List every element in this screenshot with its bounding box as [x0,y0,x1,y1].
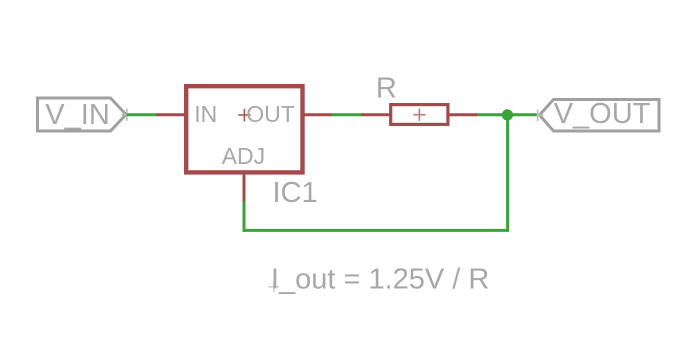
svg-text:IC1: IC1 [273,177,318,209]
svg-text:I_out = 1.25V / R: I_out = 1.25V / R [271,264,489,296]
svg-text:OUT: OUT [246,101,295,127]
svg-text:V_OUT: V_OUT [554,98,651,130]
svg-text:V_IN: V_IN [45,99,109,131]
svg-text:IN: IN [194,101,217,127]
svg-text:ADJ: ADJ [222,143,265,169]
svg-text:R: R [376,72,397,104]
